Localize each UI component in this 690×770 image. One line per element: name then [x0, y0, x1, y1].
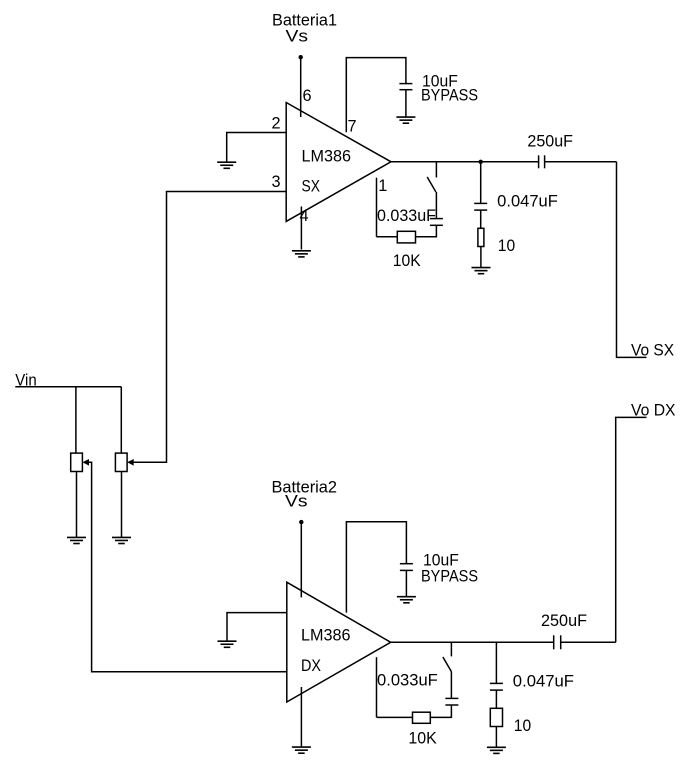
- wire pin 4 DX: [300, 687, 302, 747]
- svg-text:1: 1: [378, 177, 387, 195]
- svg-text:2: 2: [272, 115, 281, 133]
- svg-text:10: 10: [514, 717, 531, 735]
- resistor 10K SX: [397, 231, 415, 243]
- svg-text:250uF: 250uF: [527, 132, 573, 150]
- svg-text:250uF: 250uF: [541, 612, 587, 630]
- wire to Vo SX: [617, 162, 647, 358]
- wire wiper P2 to SX pin 3: [133, 192, 166, 463]
- ground pin 2 DX: [218, 641, 237, 647]
- svg-text:0.033uF: 0.033uF: [377, 672, 438, 690]
- wire 0.047uF to resistor 10 DX: [495, 690, 497, 708]
- resistor 10 DX: [490, 708, 502, 726]
- svg-text:0.047uF: 0.047uF: [497, 192, 558, 210]
- resistor 10K DX: [413, 712, 431, 723]
- wire pin 6 DX: [300, 522, 302, 597]
- node output junction SX: [479, 160, 483, 164]
- ground zobel SX: [472, 268, 491, 274]
- ground pin 4 DX: [292, 747, 311, 753]
- wire Vin bus: [15, 386, 121, 388]
- ground bypass SX: [396, 117, 415, 123]
- switch S1 SX: [427, 162, 436, 219]
- wire pin 2 DX: [227, 613, 287, 642]
- wire pin 2 SX: [227, 133, 287, 163]
- node Vs2 dot: [299, 520, 303, 524]
- capacitor 0.033uF SX: [430, 219, 443, 226]
- svg-text:Vs: Vs: [285, 492, 308, 510]
- svg-text:7: 7: [348, 117, 357, 135]
- wire resistor to pin 1 DX: [377, 716, 413, 718]
- wire Vin to pot P2: [120, 387, 122, 453]
- switch S2 DX: [443, 642, 452, 698]
- svg-text:Vo SX: Vo SX: [631, 342, 674, 360]
- wire pin 4 SX: [300, 207, 302, 250]
- svg-text:BYPASS: BYPASS: [421, 86, 478, 104]
- svg-text:6: 6: [303, 87, 312, 105]
- wire resistor 10 to ground SX: [480, 247, 482, 268]
- capacitor 250uF SX: [539, 155, 545, 168]
- wire 0.033uF cap to resistor SX: [416, 225, 437, 237]
- wire to Vo DX: [616, 417, 647, 642]
- svg-text:Vo DX: Vo DX: [631, 402, 676, 420]
- svg-text:DX: DX: [301, 657, 321, 675]
- wire bypass cap to ground SX: [405, 90, 407, 117]
- wire output DX: [391, 641, 554, 643]
- wire wiper P1 to DX pin 3: [89, 462, 287, 671]
- capacitor 250uF DX: [554, 635, 561, 649]
- capacitor 0.047uF SX: [474, 203, 487, 210]
- wire pot P1 body to ground: [76, 472, 78, 538]
- op-amp U1 LM386 SX: [286, 103, 391, 222]
- node Vs1 dot: [299, 55, 303, 59]
- wire pin 7 / bypass loop DX: [346, 522, 406, 613]
- wire output SX right of 250uF: [545, 161, 617, 163]
- resistor 10 SX: [478, 228, 484, 246]
- ground pot P1: [67, 537, 86, 543]
- ground pot P2: [112, 537, 131, 543]
- wire pin 7 / bypass loop SX: [346, 58, 406, 133]
- svg-text:BYPASS: BYPASS: [421, 567, 478, 585]
- svg-text:LM386: LM386: [302, 148, 352, 166]
- potentiometer P2: [115, 453, 133, 471]
- wire pin 6 SX: [300, 57, 302, 117]
- wire Vin to pot P1: [75, 387, 77, 453]
- svg-text:LM386: LM386: [301, 626, 351, 644]
- wire 0.033uF cap to resistor DX: [430, 705, 451, 717]
- wire resistor 10 to ground DX: [495, 727, 497, 748]
- wire output to 0.047uF SX: [480, 162, 482, 204]
- capacitor 10uF BYPASS SX: [399, 84, 412, 90]
- svg-text:0.033uF: 0.033uF: [377, 207, 436, 225]
- capacitor 10uF BYPASS DX: [400, 564, 413, 571]
- svg-text:Vs: Vs: [286, 28, 309, 46]
- wire pin 1 DX: [376, 657, 378, 717]
- ground bypass DX: [397, 597, 416, 603]
- wire output SX: [391, 161, 539, 163]
- wire resistor to pin 1 SX: [377, 236, 398, 238]
- ground pin 4 SX: [292, 251, 311, 257]
- wire pot P2 body to ground: [121, 472, 123, 538]
- capacitor 0.047uF DX: [490, 683, 503, 690]
- potentiometer P1: [71, 453, 89, 471]
- svg-text:10: 10: [498, 237, 515, 255]
- ground zobel DX: [487, 747, 506, 753]
- svg-text:3: 3: [272, 173, 281, 191]
- wire 0.047uF to resistor 10 SX: [480, 210, 482, 228]
- wire output DX right of 250uF: [561, 641, 616, 643]
- wire pin 3 DX (from P1 wiper): [280, 671, 287, 673]
- op-amp U2 LM386 DX: [287, 582, 391, 702]
- wire output to 0.047uF DX: [495, 642, 497, 683]
- svg-text:0.047uF: 0.047uF: [513, 672, 574, 690]
- wire pin 1 SX: [376, 178, 378, 237]
- wire pin 3 SX: [166, 191, 286, 193]
- ground pin 2 SX: [217, 162, 236, 168]
- wire bypass cap to ground DX: [405, 570, 407, 596]
- svg-text:10K: 10K: [393, 252, 421, 270]
- svg-text:10K: 10K: [408, 730, 437, 748]
- capacitor 0.033uF DX: [445, 698, 458, 705]
- svg-text:SX: SX: [302, 177, 321, 195]
